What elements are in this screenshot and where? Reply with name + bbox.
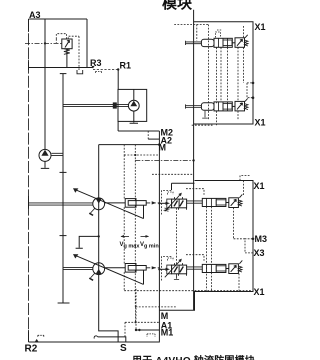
- title 模块 (cut at top): [162, 0, 192, 13]
- shaft tick 2: [60, 235, 67, 237]
- pump P1 circle: [93, 198, 105, 210]
- M1 tick: [147, 334, 155, 337]
- pump P2 shaft (double line): [63, 267, 93, 269]
- pump P2 circle: [93, 263, 105, 275]
- CV2 junction dot: [158, 268, 160, 270]
- relief valve body: [62, 39, 72, 49]
- pilot dot: [134, 154, 136, 156]
- V1 drops: [217, 47, 228, 103]
- pilot dashed y174.3: [152, 173, 194, 175]
- relief valve pilot drop: [55, 39, 57, 43]
- V1 body: [214, 38, 232, 47]
- CV1 pilot cap dashes: [168, 192, 174, 195]
- pump P2 triangle: [96, 269, 102, 274]
- CV1 junction dot: [158, 202, 160, 204]
- CV1 spool body: [202, 198, 226, 206]
- svg-text:X1: X1: [254, 287, 265, 297]
- V1 link: [232, 42, 235, 44]
- wire R3 to R1 (dashed): [93, 69, 118, 71]
- pilot network dashed: y155: [124, 154, 159, 156]
- CV1 top dashes: [162, 191, 173, 215]
- V1 valve square: [235, 38, 245, 48]
- wire A3 riser x45: [44, 19, 46, 150]
- V1 spring: [245, 40, 249, 46]
- CV1 spring: [238, 200, 242, 206]
- shaft branch to boost pump (double line): [63, 104, 129, 106]
- CV1 spring below: [165, 208, 169, 211]
- port R3 plug symbol: [96, 72, 102, 75]
- V2 stem: [186, 104, 202, 108]
- svg-text:A3: A3: [29, 10, 41, 20]
- drive shaft flange top: [60, 73, 67, 75]
- V2 drain slash: [245, 98, 248, 101]
- svg-text:X1: X1: [255, 118, 266, 128]
- CV2 arrows inside: [174, 267, 183, 273]
- pump P1 rotation mark: [91, 208, 95, 213]
- svg-text:M3: M3: [255, 234, 268, 244]
- X1 corner dashed box: [240, 176, 250, 181]
- A1 dots: [135, 329, 137, 331]
- V2 solenoid tube: [201, 103, 214, 110]
- dots on box T right edge: [252, 82, 255, 85]
- box B step line: [172, 183, 195, 190]
- dashed link of dots: [247, 83, 253, 98]
- svg-text:R1: R1: [120, 61, 132, 71]
- boost pump circle: [128, 100, 139, 111]
- CV2 proportional arrow: [165, 260, 181, 277]
- envelope bottom line: [29, 341, 160, 343]
- relief valve pilot box (dashed): [56, 34, 66, 39]
- CV2 pilot cap dashes: [168, 258, 174, 261]
- relief valve vent hook: [68, 36, 79, 70]
- CV1 inlet arrow: [159, 202, 167, 204]
- V2 inner mark: [223, 104, 232, 110]
- wire M: [99, 144, 160, 146]
- wire y67.5: [29, 67, 94, 69]
- CV2 end valve: [229, 264, 239, 274]
- envelope top line: [29, 18, 88, 20]
- main pressure wire x98.7 (through pumps): [99, 145, 118, 342]
- cylinder 1 rod + pilot arrow (dashed): [146, 202, 160, 204]
- S strainer line: [98, 337, 126, 342]
- CV1 arrows inside: [174, 201, 183, 207]
- envelope left line: [28, 19, 30, 342]
- pump P1 rod to cylinder: [105, 202, 126, 204]
- dashed y307: [136, 306, 177, 308]
- CV2 squares: [172, 265, 187, 274]
- svg-text:X1: X1: [254, 181, 265, 191]
- boost pump triangle: [130, 101, 137, 107]
- wire R1 drop: [117, 70, 119, 90]
- stroking cylinder 1: [125, 199, 136, 208]
- label Vg min arrow: [141, 235, 149, 237]
- boost pump drain + tank: [130, 111, 138, 123]
- interface line: [158, 131, 160, 342]
- drain branch wire: [76, 236, 99, 248]
- V2 valve arrow: [237, 103, 243, 110]
- CV2 left dashes: [162, 257, 173, 281]
- V2 link: [232, 105, 235, 107]
- wire A2: [148, 138, 159, 140]
- label Vg max arrow: [121, 235, 129, 237]
- R1 junction dot: [117, 68, 119, 70]
- cylinder 1 piston rod box: [128, 201, 146, 206]
- CV2 drain mark: [174, 274, 179, 280]
- relief valve spring: [64, 49, 70, 55]
- pilot drop to cylinder 1: [124, 155, 135, 201]
- relief valve DB: pilot dash-dot line: [25, 42, 62, 44]
- V2 body: [214, 102, 232, 111]
- CV2 dashed drops: [238, 274, 240, 291]
- wire A1: [136, 329, 159, 331]
- CV1 drain slash: [239, 194, 242, 197]
- V1 pilot cap dashes: [216, 32, 221, 38]
- V2 valve square: [235, 101, 245, 111]
- pump P2 swashplate arrow: [75, 255, 144, 284]
- CV1 link (double): [187, 201, 203, 203]
- V2 drops: [217, 111, 239, 125]
- pump P2 rod to cylinder: [105, 267, 126, 269]
- R2 plug symbol: [35, 339, 39, 342]
- boost pump outlet stub: [133, 89, 135, 100]
- CV2 spool body: [202, 264, 226, 272]
- svg-text:M: M: [161, 311, 169, 321]
- V1 stem: [186, 41, 202, 45]
- control valve CV2: [158, 255, 242, 291]
- port R3 tick: [92, 66, 94, 68]
- pilot pump drain + tank: [41, 161, 49, 168]
- relief valve arrow: [65, 40, 70, 47]
- CV1 proportional arrow: [165, 194, 181, 211]
- CV2 spring: [238, 266, 242, 272]
- wire M2: [118, 130, 159, 132]
- box B outline: [159, 181, 253, 311]
- V1 valve arrow: [237, 39, 243, 46]
- vent tank bracket: [77, 70, 83, 74]
- shaft tick 1: [60, 171, 67, 173]
- M junction dot: [158, 143, 161, 146]
- CV1 link2: [226, 202, 229, 204]
- control valve CV1: [158, 189, 245, 291]
- V1 solenoid tube: [201, 39, 214, 46]
- CV1 dashed drops: [176, 208, 178, 265]
- CV2 inlet arrow: [159, 268, 167, 270]
- V1 body cells: [219, 38, 228, 47]
- CV2 link2: [226, 268, 229, 270]
- cylinder 2 piston rod box: [128, 266, 146, 271]
- drive shaft end bar: [58, 302, 70, 304]
- svg-text:X3: X3: [254, 248, 265, 258]
- pilot valve V2 (bottom of box T): [186, 98, 249, 125]
- boost pump box: [118, 89, 147, 121]
- X3 dashed elbow: [245, 239, 253, 253]
- CV1 solenoid box: [167, 199, 172, 208]
- pilot drop cylinder1 to cylinder2: [124, 205, 135, 265]
- cylinder 2 rod + pilot arrow (dashed): [146, 267, 160, 269]
- CV2 solenoid box: [167, 265, 172, 274]
- relief valve junction dot: [44, 42, 46, 44]
- dashed y322: [125, 321, 159, 323]
- pilot pump circle: [39, 149, 51, 161]
- pilot pump triangle: [41, 150, 48, 156]
- svg-text:M1: M1: [161, 328, 174, 338]
- wire boost box drop: [117, 121, 119, 131]
- V2 drain mark: [202, 111, 208, 118]
- pump P1 swashplate arrow: [75, 189, 144, 218]
- svg-text:X1: X1: [255, 22, 266, 32]
- drive shaft vertical: [62, 74, 64, 303]
- pilot valve V1 (top): [186, 30, 249, 103]
- pump P2 rotation mark: [91, 273, 95, 278]
- drain branch junction dot: [98, 235, 100, 237]
- CV1 squares: [172, 199, 187, 208]
- pump P1 triangle: [96, 198, 102, 203]
- pilot network dashed: drop 2: [134, 145, 136, 161]
- pilot drop below cyl2: [124, 270, 135, 307]
- wire x87 down: [86, 19, 88, 68]
- shaft coupling blob: [113, 102, 117, 108]
- M3 junction dot: [252, 238, 255, 241]
- CV1 end valve: [229, 198, 239, 208]
- V2 body cells: [219, 102, 228, 111]
- svg-text:S: S: [120, 343, 127, 354]
- stroking cylinder 2: [125, 264, 136, 273]
- pilot network dashed: drop 1: [123, 145, 125, 155]
- S plug hook: [94, 336, 98, 339]
- svg-text:R3: R3: [90, 58, 102, 68]
- caption 用于...模块 (cut at bottom): [132, 352, 255, 360]
- pilot dash-dot y160.4: [135, 159, 193, 161]
- svg-text:R2: R2: [25, 344, 38, 355]
- rail x193.6: [193, 10, 195, 310]
- svg-text:Vg min: Vg min: [140, 242, 159, 249]
- CV2 link (double): [187, 267, 203, 269]
- box T dashed enclosure: [174, 23, 208, 25]
- CV2 drain slash: [239, 260, 242, 263]
- V2 spring: [245, 104, 249, 110]
- pilot line y290.7: [124, 290, 252, 292]
- main shaft (double line) with flange: [29, 203, 93, 205]
- pilot drop to A1: [135, 289, 137, 330]
- relief valve drain wire: [66, 49, 68, 68]
- dashed bridge M2-A2: [147, 131, 149, 139]
- svg-text:Vg max: Vg max: [120, 242, 141, 249]
- V1 inner mark: [223, 40, 232, 46]
- box T outline: [194, 22, 253, 124]
- V1 drain slash: [245, 35, 248, 38]
- pilot pump shaft (double line): [51, 153, 63, 155]
